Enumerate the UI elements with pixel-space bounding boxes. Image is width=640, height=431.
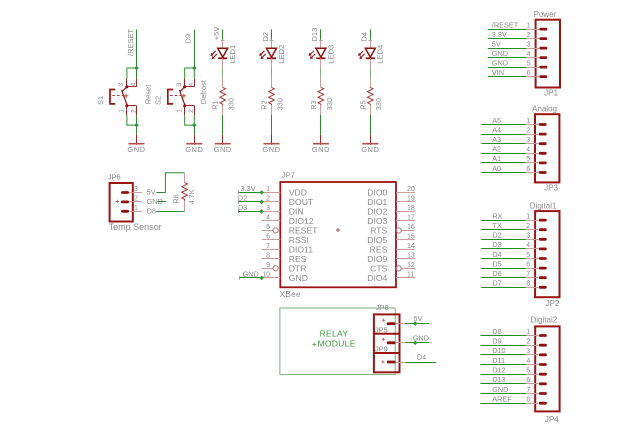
svg-text:GND: GND xyxy=(312,145,330,154)
resistor R6 top pin xyxy=(184,173,186,183)
svg-text:/RESET: /RESET xyxy=(126,28,135,56)
JP7 pin 15 DIO5 xyxy=(367,233,415,245)
svg-text:JP9: JP9 xyxy=(375,345,388,354)
node /RESET junction xyxy=(134,66,139,71)
LED column LED3 on D13 xyxy=(309,28,336,154)
wire net 5V pin 3 xyxy=(488,48,526,50)
wire net 3.3V to JP7 xyxy=(238,192,262,194)
resistor R3 top pin xyxy=(320,78,322,88)
wire net D8 pin 1 xyxy=(480,335,525,337)
JP3 pin 5 lead xyxy=(526,162,539,164)
svg-text:GND: GND xyxy=(413,333,429,342)
svg-text:Defrost: Defrost xyxy=(199,79,208,104)
wire net GND to JP7 xyxy=(239,277,261,279)
LED LED3 anode pin xyxy=(320,40,322,49)
JP1 pin 4 pad xyxy=(539,56,547,59)
wire LED to resistor xyxy=(320,68,322,78)
svg-text:R5: R5 xyxy=(358,100,367,109)
svg-text:D12: D12 xyxy=(492,366,505,375)
JP4 pin 1 lead xyxy=(526,335,539,337)
LED LED1 cathode pin xyxy=(222,58,224,68)
svg-text:RES: RES xyxy=(370,245,388,255)
svg-text:1: 1 xyxy=(176,109,183,113)
JP9 pin pad xyxy=(387,361,396,364)
switch S2 Defrost with net D9 xyxy=(154,30,209,154)
svg-text:D6: D6 xyxy=(492,269,501,278)
svg-text:DOUT: DOUT xyxy=(289,197,314,207)
LED LED2 xyxy=(259,48,276,59)
JP7 pin 13 DIO9 xyxy=(367,252,415,264)
label RELAY MODULE xyxy=(312,329,355,349)
svg-text:2: 2 xyxy=(188,109,195,113)
svg-text:4: 4 xyxy=(526,147,530,154)
svg-text:6: 6 xyxy=(266,233,270,240)
JP3 pin 4 pad xyxy=(539,152,547,155)
wire net D12 pin 5 xyxy=(480,374,525,376)
wire net /RESET to switch S1 xyxy=(136,30,138,69)
svg-text:D7: D7 xyxy=(492,279,501,288)
svg-text:DIO0: DIO0 xyxy=(367,188,387,198)
XBee module JP7 xyxy=(280,171,396,299)
svg-text:D5: D5 xyxy=(492,259,501,268)
svg-text:330: 330 xyxy=(374,98,383,110)
wire net D10 pin 3 xyxy=(480,354,525,356)
wire LED to resistor xyxy=(370,68,372,78)
LED column LED4 on D4 xyxy=(358,29,385,153)
resistor R5 bottom pin xyxy=(370,105,372,115)
JP7 pin 8 RES xyxy=(262,252,307,264)
JP1 pin 1 pad xyxy=(539,28,547,31)
JP4 pin 7 pad xyxy=(539,392,547,395)
wire net GND from relay xyxy=(405,342,429,344)
svg-text:4: 4 xyxy=(526,358,530,365)
JP2 pin 2 pad xyxy=(539,228,547,231)
svg-text:GND: GND xyxy=(492,385,508,394)
svg-text:4: 4 xyxy=(266,214,270,221)
wire net D2 to JP7 xyxy=(238,201,262,203)
wire net D5 pin 6 xyxy=(481,268,525,270)
JP3 pin 2 lead xyxy=(526,134,539,136)
svg-text:R6: R6 xyxy=(171,194,180,203)
svg-text:LED3: LED3 xyxy=(326,45,335,64)
svg-text:6: 6 xyxy=(526,166,530,173)
svg-text:19: 19 xyxy=(407,195,415,202)
wire D8 to pullup resistor xyxy=(156,211,185,213)
wire net RX pin 1 xyxy=(481,220,525,222)
connector JP1 Power xyxy=(488,10,560,97)
svg-text:DIO1: DIO1 xyxy=(367,197,387,207)
JP7 pin 12 CTS xyxy=(370,262,415,274)
JP5 pin lead xyxy=(396,342,406,344)
wire to ground xyxy=(194,125,196,135)
node switch bottom junction xyxy=(192,123,197,128)
svg-text:2: 2 xyxy=(526,127,530,134)
svg-text:GND: GND xyxy=(243,269,259,278)
svg-text:Digital1: Digital1 xyxy=(530,201,557,210)
wire net A3 pin 3 xyxy=(482,143,526,145)
svg-text:GND: GND xyxy=(289,273,308,283)
svg-text:RES: RES xyxy=(289,254,307,264)
JP4 pin 4 lead xyxy=(526,364,539,366)
svg-text:JP4: JP4 xyxy=(545,415,559,424)
svg-text:2: 2 xyxy=(130,109,137,113)
svg-text:RX: RX xyxy=(492,211,502,220)
svg-text:A3: A3 xyxy=(492,135,501,144)
JP3 pin 6 pad xyxy=(539,171,547,174)
resistor R6 bottom pin xyxy=(184,201,186,212)
JP2 pin 8 lead xyxy=(526,287,539,289)
wire net A1 pin 5 xyxy=(482,162,526,164)
wire net 5V from relay xyxy=(405,323,429,325)
svg-text:D2: D2 xyxy=(261,32,270,42)
svg-text:Digital2: Digital2 xyxy=(531,315,558,324)
svg-text:D3: D3 xyxy=(492,240,501,249)
JP3 pin 1 lead xyxy=(526,124,539,126)
svg-text:JP3: JP3 xyxy=(544,184,558,193)
svg-text:JP8: JP8 xyxy=(376,303,389,312)
svg-text:2: 2 xyxy=(526,339,530,346)
svg-text:5V: 5V xyxy=(147,187,156,196)
JP7 pin 20 DIO0 xyxy=(367,186,415,198)
wire net D9 pin 2 xyxy=(480,345,525,347)
wire net VIN pin 6 xyxy=(488,76,526,78)
svg-text:4: 4 xyxy=(526,242,530,249)
node D9 junction xyxy=(192,66,197,71)
svg-text:5: 5 xyxy=(526,368,530,375)
JP7 pin 5 RESET xyxy=(262,224,319,236)
svg-text:RESET: RESET xyxy=(289,226,318,236)
node junction D3 xyxy=(259,209,264,214)
wire net A4 pin 2 xyxy=(482,134,526,136)
LED LED4 cathode pin xyxy=(370,58,372,68)
resistor R2 bottom pin xyxy=(271,105,273,115)
svg-text:8: 8 xyxy=(526,281,530,288)
svg-text:RSSI: RSSI xyxy=(289,235,309,245)
JP7 pin 14 RES xyxy=(370,243,415,255)
svg-text:16: 16 xyxy=(407,224,415,231)
svg-text:D11: D11 xyxy=(492,356,505,365)
wire LED to resistor xyxy=(222,68,224,78)
svg-text:330: 330 xyxy=(275,98,284,110)
JP4 pin 7 lead xyxy=(526,393,539,395)
svg-text:3: 3 xyxy=(527,41,531,48)
connector JP8 JP5 JP9 single-pin headers xyxy=(374,314,400,372)
svg-text:1: 1 xyxy=(266,186,270,193)
ground below R3 xyxy=(312,135,330,154)
svg-text:LED1: LED1 xyxy=(228,45,237,64)
JP7 pin 11 DIO4 xyxy=(367,271,414,283)
JP4 pin 6 pad xyxy=(539,382,547,385)
JP1 pin 2 lead xyxy=(526,38,539,40)
JP4 pin 5 lead xyxy=(526,374,539,376)
svg-text:4: 4 xyxy=(188,83,195,87)
wire switch bottom branches xyxy=(185,115,195,125)
svg-text:+5V: +5V xyxy=(212,27,221,41)
JP9 pin lead xyxy=(396,362,406,364)
resistor R2 330 xyxy=(269,87,275,105)
wire net /RESET pin 1 xyxy=(488,29,526,31)
svg-text:1: 1 xyxy=(526,118,530,125)
JP7 pin 19 DIO1 xyxy=(367,195,415,207)
svg-text:R3: R3 xyxy=(309,100,318,109)
wire net 3.3V pin 2 xyxy=(488,38,526,40)
svg-text:3: 3 xyxy=(134,186,138,193)
switch S1 xyxy=(110,79,137,116)
svg-text:Power: Power xyxy=(534,10,557,19)
JP8 pin lead xyxy=(396,323,406,325)
svg-text:2: 2 xyxy=(527,32,531,39)
JP4 pin 8 lead xyxy=(526,403,539,405)
svg-text:CTS: CTS xyxy=(370,264,387,274)
svg-text:6: 6 xyxy=(527,70,531,77)
JP4 pin 3 lead xyxy=(526,354,539,356)
JP4 pin 6 lead xyxy=(526,383,539,385)
ground below R2 xyxy=(262,135,280,154)
wire net D2 xyxy=(271,29,273,39)
JP7 pin 3 DIN xyxy=(262,205,304,217)
svg-text:14: 14 xyxy=(407,243,415,250)
JP1 pin 3 pad xyxy=(539,47,547,50)
wire resistor to ground xyxy=(370,115,372,135)
resistor R1 bottom pin xyxy=(222,105,224,115)
JP1 pin 1 lead xyxy=(526,29,539,31)
JP3 pin 5 pad xyxy=(539,162,547,165)
svg-text:D3: D3 xyxy=(238,203,247,212)
svg-text:10: 10 xyxy=(262,271,270,278)
resistor R3 330 xyxy=(318,87,324,105)
JP2 pin 5 lead xyxy=(526,258,539,260)
svg-text:GND: GND xyxy=(492,49,508,58)
JP7 pin 17 DIO3 xyxy=(367,214,415,226)
JP4 pin 3 pad xyxy=(539,353,547,356)
svg-text:7: 7 xyxy=(526,387,530,394)
svg-text:XBee: XBee xyxy=(280,290,301,299)
svg-text:4: 4 xyxy=(527,51,531,58)
svg-text:VDD: VDD xyxy=(289,188,307,198)
connector JP1 header block Power xyxy=(536,20,560,88)
svg-text:D13: D13 xyxy=(492,375,505,384)
wire net D13 pin 6 xyxy=(480,383,525,385)
svg-text:D2: D2 xyxy=(238,193,247,202)
svg-text:5V: 5V xyxy=(413,314,422,323)
wire net D2 pin 3 xyxy=(481,239,525,241)
JP7 pin 1 VDD xyxy=(262,186,307,198)
svg-text:JP2: JP2 xyxy=(546,299,560,308)
JP4 pin 5 pad xyxy=(539,373,547,376)
JP3 pin 3 pad xyxy=(539,142,547,145)
JP1 pin 6 lead xyxy=(526,76,539,78)
wire net A0 pin 6 xyxy=(482,172,526,174)
svg-text:GND: GND xyxy=(185,145,203,154)
svg-text:3: 3 xyxy=(526,233,530,240)
svg-text:4: 4 xyxy=(130,83,137,87)
svg-text:D8: D8 xyxy=(147,206,156,215)
svg-text:5: 5 xyxy=(526,156,530,163)
wire resistor to ground xyxy=(320,115,322,135)
node junction 3.3V xyxy=(259,190,264,195)
wire net D9 to switch S2 xyxy=(194,30,196,69)
pin labels S2 xyxy=(176,83,195,114)
wire net A5 pin 1 xyxy=(482,124,526,126)
LED LED4 anode pin xyxy=(370,40,372,49)
wire net +5V xyxy=(222,29,224,39)
svg-text:R1: R1 xyxy=(211,100,220,109)
svg-text:VIN: VIN xyxy=(492,68,504,77)
switch S1 Reset with net /RESET xyxy=(96,28,152,153)
svg-text:LED2: LED2 xyxy=(277,45,286,64)
JP4 pin 8 pad xyxy=(539,402,547,405)
LED LED2 anode pin xyxy=(271,40,273,49)
svg-text:Temp Sensor: Temp Sensor xyxy=(109,222,162,232)
JP4 pin 2 lead xyxy=(526,345,539,347)
svg-text:13: 13 xyxy=(407,252,415,259)
svg-text:3.3V: 3.3V xyxy=(492,30,507,39)
connector JP3 header block Analog xyxy=(535,114,559,182)
origin cross JP9 xyxy=(381,360,384,363)
JP1 pin 3 lead xyxy=(526,48,539,50)
svg-text:11: 11 xyxy=(407,271,414,278)
wire switch top branches xyxy=(127,68,137,79)
connector JP4 header block Digital2 xyxy=(535,326,559,411)
svg-text:GND: GND xyxy=(492,58,508,67)
node junction GND xyxy=(259,276,264,281)
svg-text:D2: D2 xyxy=(492,231,501,240)
svg-text:D4: D4 xyxy=(492,250,501,259)
svg-text:1: 1 xyxy=(527,22,531,29)
wire resistor to ground xyxy=(271,115,273,135)
wire to ground xyxy=(136,125,138,135)
wire net D13 xyxy=(320,29,322,39)
svg-text:3: 3 xyxy=(526,348,530,355)
svg-text:3: 3 xyxy=(526,137,530,144)
svg-text:DIO12: DIO12 xyxy=(289,216,314,226)
JP3 pin 1 pad xyxy=(539,123,547,126)
resistor R2 top pin xyxy=(271,78,273,88)
svg-text:5: 5 xyxy=(527,60,531,67)
svg-text:S1: S1 xyxy=(96,96,105,105)
wire net D3 to JP7 xyxy=(238,211,262,213)
svg-text:LED4: LED4 xyxy=(376,45,385,64)
JP7 pin 6 RSSI xyxy=(262,233,309,245)
svg-text:330: 330 xyxy=(227,98,236,110)
svg-text:A5: A5 xyxy=(492,116,501,125)
JP2 pin 3 pad xyxy=(539,238,547,241)
node junction D2 xyxy=(259,200,264,205)
svg-text:6: 6 xyxy=(526,377,530,384)
wire net AREF pin 8 xyxy=(480,403,525,405)
wire switch bottom branches xyxy=(127,115,137,125)
svg-text:GND: GND xyxy=(262,145,280,154)
LED column LED2 on D2 xyxy=(259,29,286,153)
wire net GND pin 5 xyxy=(488,67,526,69)
svg-text:A4: A4 xyxy=(492,125,501,134)
svg-text:3: 3 xyxy=(118,83,125,87)
JP2 pin 2 lead xyxy=(526,229,539,231)
wire net GND pin 7 xyxy=(480,393,525,395)
svg-text:330: 330 xyxy=(325,98,334,110)
LED column LED1 on +5V xyxy=(211,27,238,154)
ground below S2 xyxy=(185,135,203,154)
JP7 pin 16 RTS xyxy=(370,224,415,236)
JP7 pin 4 DIO12 xyxy=(262,214,314,226)
svg-text:7: 7 xyxy=(266,243,270,250)
switch S2 xyxy=(168,79,195,116)
svg-text:Analog: Analog xyxy=(532,105,557,114)
svg-text:DIN: DIN xyxy=(289,207,304,217)
svg-text:6: 6 xyxy=(526,261,530,268)
JP5 pin pad xyxy=(387,341,396,344)
wire net GND pin 4 xyxy=(488,57,526,59)
svg-text:D4: D4 xyxy=(417,352,426,361)
wire net D4 pin 5 xyxy=(481,258,525,260)
wire net D7 pin 8 xyxy=(481,287,525,289)
LED LED3 cathode pin xyxy=(320,58,322,68)
connector JP4 Digital2 xyxy=(480,315,559,424)
svg-text:5: 5 xyxy=(526,252,530,259)
svg-text:RTS: RTS xyxy=(370,226,387,236)
resistor R5 top pin xyxy=(370,78,372,88)
svg-text:MODULE: MODULE xyxy=(318,338,356,348)
svg-text:JP7: JP7 xyxy=(282,171,295,180)
JP2 pin 4 pad xyxy=(539,248,547,251)
LED LED3 xyxy=(309,48,326,59)
JP7 pin 2 DOUT xyxy=(262,195,314,207)
origin cross JP5 xyxy=(382,338,385,341)
relay module green outline xyxy=(280,308,395,375)
svg-text:GND: GND xyxy=(361,145,379,154)
wire 5V to pullup resistor xyxy=(156,173,184,193)
wire net D4 from relay xyxy=(405,362,436,364)
svg-text:5: 5 xyxy=(266,224,270,231)
svg-text:1: 1 xyxy=(134,205,138,212)
svg-text:1: 1 xyxy=(526,213,530,220)
svg-text:DIO2: DIO2 xyxy=(367,207,387,217)
JP2 pin 8 pad xyxy=(539,286,547,289)
wire net D3 pin 4 xyxy=(481,248,525,250)
svg-text:A2: A2 xyxy=(492,145,501,154)
svg-text:2: 2 xyxy=(134,196,138,203)
origin cross JP8 xyxy=(382,319,385,322)
JP3 pin 6 lead xyxy=(526,172,539,174)
svg-text:A1: A1 xyxy=(492,154,501,163)
svg-text:AREF: AREF xyxy=(492,395,512,404)
svg-text:S2: S2 xyxy=(154,96,163,105)
wire net TX pin 2 xyxy=(481,229,525,231)
svg-text:12: 12 xyxy=(407,262,415,269)
svg-text:3.3V: 3.3V xyxy=(241,184,256,193)
JP2 pin 1 lead xyxy=(526,220,539,222)
svg-text:2: 2 xyxy=(526,223,530,230)
svg-text:8: 8 xyxy=(266,252,270,259)
connector JP2 header block Digital1 xyxy=(535,211,559,297)
JP2 pin 6 pad xyxy=(539,267,547,270)
JP7 pin 9 DTR xyxy=(262,262,307,274)
connector JP2 Digital1 xyxy=(481,201,560,307)
wire net A2 pin 4 xyxy=(482,153,526,155)
JP7 pin 18 DIO2 xyxy=(367,205,415,217)
svg-text:D9: D9 xyxy=(184,34,193,44)
wire LED to resistor xyxy=(271,68,273,78)
JP2 pin 7 lead xyxy=(526,277,539,279)
svg-text:3: 3 xyxy=(176,83,183,87)
JP1 pin 5 pad xyxy=(539,66,547,69)
JP2 pin 4 lead xyxy=(526,248,539,250)
JP3 pin 4 lead xyxy=(526,153,539,155)
svg-text:RELAY: RELAY xyxy=(320,329,349,339)
JP4 pin 4 pad xyxy=(539,363,547,366)
node junction 5V xyxy=(413,321,418,326)
svg-text:R2: R2 xyxy=(260,100,269,109)
